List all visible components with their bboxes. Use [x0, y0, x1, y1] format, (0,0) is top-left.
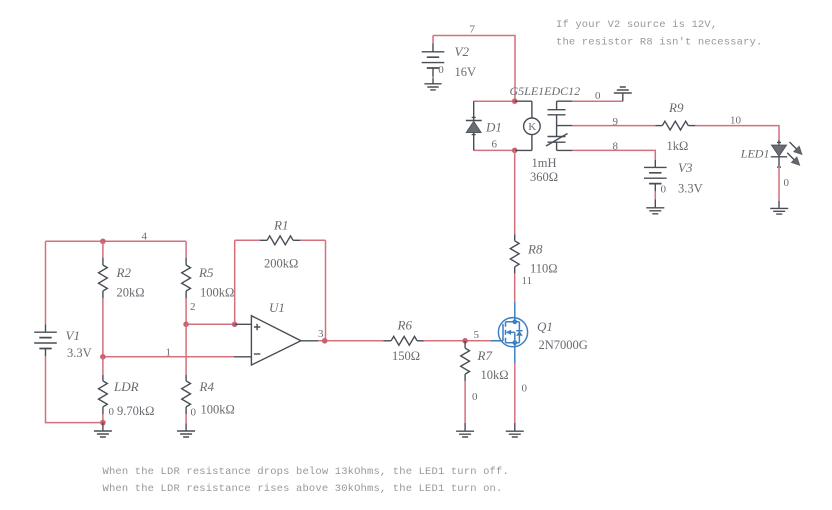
ground at V2	[424, 84, 441, 90]
resistor R1 feedback	[235, 236, 326, 341]
wire net6 relay to R8	[514, 150, 516, 234]
resistor R7	[461, 341, 470, 431]
svg-text:11: 11	[522, 275, 533, 287]
junction net4 R2	[100, 239, 106, 245]
svg-text:V1: V1	[66, 328, 80, 343]
svg-text:10kΩ: 10kΩ	[481, 368, 509, 382]
wire relay bottom to coil	[515, 149, 532, 151]
svg-text:110Ω: 110Ω	[530, 262, 558, 276]
wire net0 relay to ground	[572, 100, 622, 102]
ground at V3	[646, 208, 664, 214]
svg-text:0: 0	[438, 64, 444, 76]
svg-text:V3: V3	[678, 160, 693, 175]
wire net9	[572, 125, 655, 127]
wire net11	[514, 274, 516, 302]
svg-text:3.3V: 3.3V	[67, 346, 92, 360]
svg-text:0: 0	[472, 391, 478, 403]
svg-text:1kΩ: 1kΩ	[667, 139, 689, 153]
svg-text:K: K	[528, 121, 536, 133]
wire V1 top	[45, 241, 47, 324]
svg-text:When the LDR resistance rises: When the LDR resistance rises above 30kO…	[103, 483, 503, 495]
svg-text:0: 0	[784, 177, 790, 189]
resistor R4	[182, 324, 191, 431]
svg-text:200kΩ: 200kΩ	[264, 257, 298, 271]
voltage source V3	[644, 160, 667, 208]
svg-text:V2: V2	[455, 44, 470, 59]
relay coil K	[524, 101, 541, 150]
photoresistor LDR	[99, 357, 108, 423]
svg-text:3: 3	[318, 328, 324, 340]
svg-text:10: 10	[730, 115, 742, 127]
wire net7 V2 top	[433, 36, 515, 102]
svg-text:U1: U1	[269, 300, 285, 315]
resistor R2	[99, 241, 108, 356]
svg-text:the resistor R8 isn't necessar: the resistor R8 isn't necessary.	[556, 36, 762, 48]
wire relay bottom left	[474, 149, 515, 151]
ground at Q1	[506, 431, 524, 437]
svg-text:R6: R6	[397, 318, 413, 333]
wire V1 bottom to net0	[46, 356, 103, 422]
diode D1	[466, 101, 482, 150]
wire net8	[572, 150, 655, 160]
ground at R7	[456, 431, 474, 437]
voltage source V2	[422, 43, 445, 84]
svg-text:0: 0	[522, 383, 528, 395]
op-amp U1	[234, 316, 318, 365]
transistor Q1 2N7000G	[491, 302, 528, 364]
svg-text:8: 8	[613, 141, 619, 153]
ground at LDR	[94, 423, 112, 437]
ground at LED	[770, 201, 788, 214]
svg-text:4: 4	[142, 231, 148, 243]
wire relay top to coil	[515, 100, 532, 102]
svg-text:D1: D1	[485, 120, 502, 135]
svg-text:When the LDR resistance drops: When the LDR resistance drops below 13kO…	[103, 466, 509, 478]
svg-text:R1: R1	[273, 218, 288, 233]
junction relay top	[512, 98, 518, 104]
svg-text:0: 0	[595, 90, 601, 102]
svg-text:150Ω: 150Ω	[392, 349, 420, 363]
svg-text:3.3V: 3.3V	[678, 182, 703, 196]
svg-text:9: 9	[613, 116, 619, 128]
svg-text:If your V2 source is 12V,: If your V2 source is 12V,	[556, 19, 717, 31]
junction net0 LDR	[100, 420, 106, 426]
svg-text:360Ω: 360Ω	[530, 170, 558, 184]
wire Q1 source to ground	[514, 364, 516, 423]
voltage source V1	[34, 324, 57, 356]
wire net3	[318, 340, 383, 342]
svg-text:5: 5	[474, 329, 480, 341]
resistor R9	[655, 121, 695, 130]
wire LED to ground	[778, 166, 780, 200]
resistor R8	[510, 234, 519, 273]
relay contact stack	[546, 101, 572, 150]
svg-text:0: 0	[109, 406, 115, 418]
svg-text:G5LE1EDC12: G5LE1EDC12	[510, 84, 581, 98]
wire gate lead	[491, 340, 503, 342]
wire net2	[186, 323, 235, 325]
wire net1	[103, 356, 234, 358]
svg-text:0: 0	[191, 407, 197, 419]
junction net2 opamp	[232, 322, 238, 328]
svg-text:R4: R4	[199, 379, 215, 394]
resistor R6	[383, 336, 491, 345]
svg-text:Q1: Q1	[537, 319, 553, 334]
wire relay top left	[474, 100, 515, 102]
svg-text:1: 1	[166, 347, 172, 359]
junction net3	[322, 338, 328, 344]
wire net4 top left	[46, 240, 187, 242]
svg-text:20kΩ: 20kΩ	[117, 286, 145, 300]
svg-text:R8: R8	[527, 242, 543, 257]
LED1	[771, 140, 802, 167]
junction relay bottom	[512, 148, 518, 154]
ground at R4	[177, 431, 195, 437]
svg-text:1mH: 1mH	[532, 156, 557, 170]
svg-text:LDR: LDR	[113, 379, 139, 394]
svg-text:LED1: LED1	[740, 147, 770, 161]
junction net2	[183, 322, 189, 328]
junction net5	[462, 338, 468, 344]
svg-text:R5: R5	[198, 265, 214, 280]
svg-text:9.70kΩ: 9.70kΩ	[117, 404, 154, 418]
svg-text:R2: R2	[116, 265, 132, 280]
ground flipped at relay	[614, 87, 632, 101]
svg-text:100kΩ: 100kΩ	[201, 403, 235, 417]
wire net10	[695, 126, 779, 140]
svg-text:R9: R9	[668, 100, 684, 115]
svg-text:2N7000G: 2N7000G	[539, 338, 588, 352]
junction net1	[100, 354, 106, 360]
svg-text:7: 7	[470, 24, 476, 36]
svg-text:100kΩ: 100kΩ	[200, 286, 234, 300]
svg-text:R7: R7	[477, 348, 493, 363]
svg-text:0: 0	[661, 184, 667, 196]
svg-text:16V: 16V	[455, 65, 477, 79]
svg-text:2: 2	[190, 301, 196, 313]
resistor R5	[182, 241, 191, 324]
svg-text:6: 6	[492, 139, 498, 151]
